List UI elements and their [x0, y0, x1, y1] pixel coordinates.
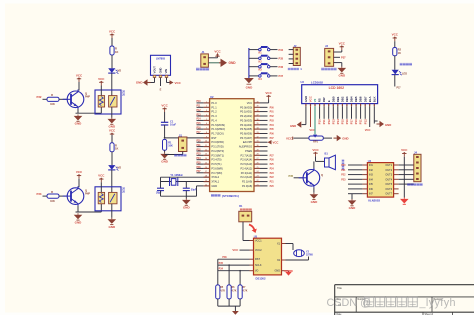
- svg-text:P1.1: P1.1: [211, 105, 217, 109]
- svg-text:P34: P34: [197, 157, 202, 160]
- LED VD (relay P33): [108, 165, 121, 170]
- svg-text:P0.0(AD0): P0.0(AD0): [240, 105, 252, 109]
- svg-text:RP1: RP1: [313, 141, 318, 144]
- wire P33 to base resistor: [43, 195, 48, 197]
- svg-text:U3: U3: [301, 80, 305, 84]
- connector J2 (keys): [293, 44, 300, 66]
- svg-text:VCC: VCC: [175, 81, 182, 85]
- RTC U5 designator: [254, 234, 258, 238]
- svg-text:22: 22: [257, 180, 259, 182]
- svg-text:P3.7(RD): P3.7(RD): [211, 171, 222, 175]
- wire LED to relay contact: [111, 73, 113, 96]
- svg-text:RST: RST: [255, 258, 260, 261]
- wire XTAL2 rail: [161, 176, 210, 178]
- wires J2 to keys: [289, 50, 294, 64]
- power flag VCC (relay coil): [98, 174, 105, 193]
- svg-text:DB3: DB3: [345, 96, 349, 102]
- ground (relay contact): [108, 118, 117, 129]
- relay coil: [98, 96, 104, 107]
- svg-text:P1.6(MISO): P1.6(MISO): [211, 127, 225, 131]
- svg-text:P34: P34: [219, 268, 224, 271]
- svg-text:P1.3: P1.3: [211, 114, 217, 118]
- net label P33: [37, 192, 42, 196]
- wire speaker to Q collector: [313, 161, 315, 168]
- svg-text:VCC: VCC: [286, 136, 293, 140]
- wire SCLK net: [218, 262, 250, 285]
- wire P35 to Q base: [294, 177, 304, 179]
- resistor R7 4.7K: [238, 285, 248, 299]
- svg-text:P0.3(AD3): P0.3(AD3): [240, 118, 252, 122]
- svg-text:P04: P04: [270, 124, 275, 127]
- svg-text:10: 10: [205, 141, 207, 143]
- svg-text:P22: P22: [270, 177, 275, 179]
- svg-text:LED: LED: [402, 73, 407, 76]
- power flag VCC (Q emitter): [76, 170, 83, 187]
- wire VCC to pot: [294, 137, 309, 139]
- LCD data wires with net labels: [318, 106, 368, 124]
- svg-text:36: 36: [257, 119, 259, 121]
- resistor R 1K (relay P33): [110, 135, 119, 152]
- wire LCD pin15 VCC: [365, 106, 371, 132]
- svg-text:GND: GND: [229, 61, 237, 65]
- wire LCD pin16 to GND: [374, 106, 377, 123]
- svg-text:DB6: DB6: [359, 96, 363, 102]
- wire resistor to LED: [111, 152, 113, 165]
- svg-text:P31: P31: [197, 145, 202, 147]
- svg-text:P00: P00: [270, 107, 275, 109]
- power flag VCC (MCU pin40): [260, 91, 273, 103]
- ground (LCD pin16, arrow right): [377, 121, 392, 127]
- svg-text:P2.1(A9): P2.1(A9): [242, 180, 252, 184]
- wire VCC stub: [111, 38, 113, 46]
- wire LCD pin2 VCC: [309, 106, 315, 132]
- ground (stepper, red): [400, 165, 409, 204]
- resistor R5 4.7K: [216, 285, 226, 299]
- svg-text:P32: P32: [197, 149, 202, 151]
- svg-text:P11: P11: [359, 119, 363, 124]
- switch K3: [249, 63, 284, 72]
- label power port: [196, 68, 209, 71]
- svg-text:DB4: DB4: [350, 96, 354, 102]
- resistor R 1K (relay P32): [110, 38, 119, 55]
- svg-text:EA/VPP: EA/VPP: [243, 140, 253, 144]
- svg-text:P2.3(A11): P2.3(A11): [241, 171, 253, 175]
- power flag VCC (pot): [286, 136, 293, 140]
- capacitor C1 10uF: [161, 112, 177, 138]
- wire MCU GND pin: [186, 186, 203, 196]
- svg-text:11: 11: [205, 145, 207, 147]
- connector J4 (stepper): [414, 151, 421, 182]
- svg-text:XTAL1: XTAL1: [211, 180, 219, 184]
- wire resistor to LED: [111, 55, 113, 68]
- svg-text:P26: P26: [270, 160, 275, 162]
- wire VCC stub: [111, 137, 113, 143]
- power flag VCC (reset): [161, 103, 168, 112]
- svg-text:LM7805: LM7805: [156, 58, 166, 61]
- svg-text:12: 12: [205, 149, 207, 151]
- svg-text:P05: P05: [270, 129, 275, 131]
- svg-text:JD: JD: [122, 94, 125, 97]
- svg-text:P35: P35: [197, 162, 202, 164]
- svg-text:P0.7(AD7): P0.7(AD7): [240, 136, 252, 140]
- wire VCC2: [232, 248, 249, 252]
- resistor R6 4.7K: [227, 285, 237, 299]
- svg-text:P2.0(A8): P2.0(A8): [242, 184, 252, 188]
- svg-text:BLA: BLA: [368, 95, 372, 102]
- svg-text:GND: GND: [342, 137, 348, 141]
- svg-text:38: 38: [257, 110, 259, 112]
- LCD module U3 box: [301, 80, 378, 103]
- svg-text:VD: VD: [118, 69, 122, 73]
- svg-text:P2.2(A10): P2.2(A10): [241, 175, 253, 179]
- svg-text:P3.2(INT0): P3.2(INT0): [211, 149, 224, 153]
- ULN2003 label: [368, 198, 380, 202]
- svg-text:GND: GND: [311, 200, 319, 204]
- svg-text:VCC: VCC: [265, 91, 272, 95]
- svg-text:P30: P30: [197, 141, 202, 143]
- svg-text:P35: P35: [219, 262, 224, 265]
- wire relay contact to GND: [111, 107, 113, 118]
- svg-text:P16: P16: [345, 119, 349, 124]
- svg-text:OUT1: OUT1: [385, 164, 392, 167]
- svg-text:R: R: [51, 190, 53, 194]
- svg-text:XTAL2: XTAL2: [211, 175, 219, 179]
- svg-text:P34: P34: [279, 48, 284, 52]
- svg-text:P15: P15: [341, 119, 345, 124]
- svg-text:VCC: VCC: [109, 29, 116, 33]
- svg-text:P10: P10: [318, 119, 322, 124]
- wire J3 pin3 to GND: [334, 63, 342, 67]
- svg-text:P12: P12: [197, 110, 202, 112]
- svg-text:10K: 10K: [168, 145, 173, 148]
- power flag VCC (U1 out): [167, 80, 182, 85]
- svg-text:23: 23: [257, 176, 259, 178]
- svg-text:P2.7(A15): P2.7(A15): [241, 153, 253, 157]
- switch K1: [249, 46, 284, 55]
- wire reset node to RST pin: [164, 137, 210, 139]
- svg-text:1: 1: [206, 101, 207, 103]
- U1 middle pin mark: [160, 88, 162, 92]
- svg-text:P01: P01: [270, 112, 275, 114]
- svg-text:V0: V0: [313, 98, 317, 102]
- svg-text:VOUT: VOUT: [153, 66, 157, 74]
- svg-text:VCC: VCC: [312, 148, 319, 152]
- svg-text:P24: P24: [270, 167, 275, 170]
- wire P32 to base resistor: [43, 98, 48, 100]
- svg-text:P37: P37: [341, 55, 346, 59]
- svg-text:PNP: PNP: [85, 96, 90, 99]
- regulator U1 box: [151, 55, 171, 75]
- svg-text:40: 40: [257, 101, 259, 103]
- svg-text:RW: RW: [322, 97, 326, 102]
- svg-text:GND: GND: [136, 81, 144, 85]
- svg-text:P37: P37: [197, 171, 202, 173]
- ULN2003 pin texts: [369, 164, 393, 196]
- wire resistors common: [218, 299, 240, 306]
- ULN2003 body: [367, 163, 393, 198]
- capacitor C2 30pF: [156, 177, 164, 196]
- power flag VCC (Q emitter): [76, 73, 83, 90]
- svg-text:31: 31: [257, 141, 259, 143]
- svg-text:1K: 1K: [115, 50, 118, 54]
- wire base resistor to Q: [59, 98, 67, 100]
- svg-text:JD: JD: [122, 190, 125, 193]
- svg-text:IN2: IN2: [369, 169, 374, 172]
- MCU U2 designator: [210, 95, 214, 99]
- svg-text:GND: GND: [161, 160, 169, 164]
- svg-text:8: 8: [206, 132, 207, 134]
- svg-text:SCLK: SCLK: [255, 264, 262, 267]
- svg-text:35: 35: [257, 123, 259, 125]
- power flag VCC (speaker): [312, 148, 319, 157]
- MCU P2 wires and net labels: [260, 155, 274, 188]
- svg-text:P1.2: P1.2: [211, 110, 217, 114]
- MCU pin name texts: [211, 101, 252, 188]
- wire RST net: [218, 256, 250, 285]
- svg-text:P32: P32: [37, 95, 42, 99]
- svg-text:6: 6: [206, 123, 207, 125]
- svg-text:P12: P12: [327, 119, 331, 124]
- svg-text:P02: P02: [270, 116, 275, 118]
- svg-text:PSEN: PSEN: [245, 149, 252, 153]
- ULN2003 U4 designator: [368, 159, 372, 163]
- svg-text:P25: P25: [270, 164, 275, 166]
- svg-text:VCC: VCC: [76, 73, 83, 77]
- wire caps common: [161, 196, 187, 198]
- label keys port: [288, 67, 302, 71]
- svg-text:P13: P13: [197, 114, 202, 116]
- svg-text:R: R: [51, 93, 53, 97]
- svg-text:VCC: VCC: [214, 50, 221, 54]
- svg-text:P20: P20: [341, 164, 346, 167]
- wire Q collector down: [76, 107, 102, 113]
- svg-text:4.7K: 4.7K: [243, 289, 248, 292]
- svg-text:P22: P22: [341, 174, 346, 177]
- svg-text:DB2: DB2: [341, 96, 345, 102]
- svg-text:P3.3(INT1): P3.3(INT1): [211, 153, 224, 157]
- wire LED down: [395, 75, 402, 90]
- ground (below Q): [74, 115, 83, 126]
- svg-text:VCC2: VCC2: [255, 249, 262, 252]
- MCU body: [210, 99, 254, 192]
- svg-text:P3.6(WR): P3.6(WR): [211, 166, 223, 170]
- net label P32: [37, 95, 42, 99]
- svg-text:VCC: VCC: [339, 41, 346, 45]
- label temp sensor port: [321, 68, 336, 71]
- svg-text:RST: RST: [211, 136, 217, 140]
- svg-text:E: E: [327, 100, 331, 102]
- svg-text:P2.6(A14): P2.6(A14): [241, 158, 253, 162]
- LED power indicator: [392, 70, 408, 76]
- power flag VCC (relay P32 pull): [109, 29, 116, 38]
- svg-text:OUT5: OUT5: [385, 183, 392, 186]
- svg-text:VCC: VCC: [98, 174, 105, 178]
- svg-text:28: 28: [257, 154, 259, 156]
- svg-text:18: 18: [205, 176, 207, 178]
- svg-text:GND: GND: [108, 225, 116, 229]
- svg-text:P23: P23: [270, 173, 275, 175]
- svg-text:7: 7: [206, 128, 207, 130]
- svg-text:P0.4(AD4): P0.4(AD4): [240, 123, 252, 127]
- svg-text:P1.5(MOSI): P1.5(MOSI): [211, 123, 225, 127]
- potentiometer RP1: [309, 135, 323, 144]
- svg-text:P33: P33: [37, 192, 42, 196]
- DS1302 label: [255, 276, 266, 280]
- svg-text:GND: GND: [246, 85, 254, 89]
- svg-text:P17: P17: [197, 132, 202, 134]
- wire battery to VCC1: [243, 222, 254, 241]
- LED VD (relay P32): [108, 68, 121, 73]
- ground (reset R): [160, 150, 169, 163]
- capacitor C3 30pF: [183, 182, 197, 197]
- svg-text:P36: P36: [279, 65, 284, 69]
- wire LCD pin1 to GND: [302, 106, 306, 124]
- svg-text:P1.0: P1.0: [211, 101, 217, 105]
- svg-text:DB1: DB1: [336, 96, 340, 102]
- svg-text:GND: GND: [385, 123, 391, 127]
- svg-text:DS1302: DS1302: [255, 276, 266, 280]
- transistor Q NPN (buzzer): [299, 168, 323, 188]
- connector J1 (power): [201, 50, 209, 67]
- MCU EA to VCC: [260, 140, 278, 144]
- switch K4: [249, 72, 284, 81]
- svg-text:VCC: VCC: [232, 248, 238, 252]
- svg-text:4.7K: 4.7K: [232, 289, 237, 292]
- svg-text:P21: P21: [270, 182, 275, 184]
- wire J1 pin1 to VCC: [208, 50, 221, 58]
- relay pin labels: [122, 187, 125, 193]
- svg-text:VCC: VCC: [161, 103, 168, 107]
- svg-text:P3.4(T0): P3.4(T0): [211, 158, 221, 162]
- wire X1 to crystal: [286, 244, 294, 251]
- svg-text:Title: Title: [337, 286, 342, 290]
- svg-text:14: 14: [205, 158, 207, 160]
- svg-text:P33: P33: [197, 154, 202, 156]
- svg-text:VCC: VCC: [309, 95, 313, 102]
- svg-text:P1.4: P1.4: [211, 118, 217, 122]
- svg-text:P14: P14: [197, 118, 202, 121]
- svg-text:24: 24: [257, 171, 259, 173]
- ground (below Q): [74, 213, 83, 224]
- red arrow (battery): [249, 225, 257, 234]
- resistor R 10K (base): [47, 93, 59, 106]
- wire LCD pin3 to pot wiper: [314, 106, 316, 134]
- svg-text:GND: GND: [158, 68, 162, 74]
- svg-text:P35: P35: [288, 174, 293, 178]
- U1 pins: [153, 75, 168, 86]
- LCD pin stubs: [306, 104, 374, 107]
- ground (ULN2003): [348, 194, 357, 210]
- svg-text:_lyyfyh: _lyyfyh: [419, 297, 456, 309]
- svg-text:DB5: DB5: [354, 96, 358, 102]
- svg-text:1K: 1K: [115, 147, 118, 151]
- ground (button bus): [244, 76, 254, 89]
- svg-text:IN3: IN3: [369, 174, 374, 177]
- svg-text:GND: GND: [75, 122, 83, 126]
- power flag VCC (relay coil): [98, 77, 105, 96]
- svg-text:VCC: VCC: [109, 129, 116, 133]
- DS1302 pin texts: [255, 240, 281, 273]
- svg-text:VCC: VCC: [365, 128, 371, 132]
- svg-text:26: 26: [257, 163, 259, 165]
- svg-text:P27: P27: [270, 155, 275, 157]
- label stepper port: [407, 183, 422, 186]
- svg-text:P10: P10: [354, 119, 358, 124]
- MCU label: [211, 194, 239, 198]
- svg-text:VCC: VCC: [98, 77, 105, 81]
- svg-text:25: 25: [257, 167, 259, 169]
- svg-text:33: 33: [257, 132, 259, 134]
- svg-text:16: 16: [205, 167, 207, 169]
- svg-text:2: 2: [206, 106, 207, 108]
- wire pot to GND: [323, 137, 332, 139]
- power flag VCC (relay P33 pull): [109, 129, 116, 138]
- label Y1 12MHz: [170, 173, 183, 177]
- svg-text:P17: P17: [397, 88, 402, 90]
- svg-text:P15: P15: [197, 123, 202, 125]
- MCU P0 wires and net labels: [260, 107, 274, 151]
- svg-text:P12: P12: [363, 119, 367, 124]
- svg-text:P0.2(AD2): P0.2(AD2): [240, 114, 252, 118]
- svg-text:VCC: VCC: [273, 140, 279, 144]
- wire X2 to crystal: [286, 257, 309, 261]
- svg-text:5: 5: [206, 119, 207, 121]
- relay K box: [95, 90, 121, 114]
- svg-text:P20: P20: [270, 186, 275, 188]
- svg-text:IN1: IN1: [369, 164, 374, 167]
- wire Q emitter to GND: [313, 188, 315, 193]
- MCU pin stubs and numbers: [204, 101, 260, 186]
- svg-text:32768: 32768: [306, 254, 313, 257]
- wire J3 pin1 to VCC: [334, 41, 346, 52]
- svg-text:30pF: 30pF: [156, 192, 162, 195]
- svg-text:OUT7: OUT7: [385, 193, 392, 196]
- watermark: [327, 297, 456, 309]
- svg-text:34: 34: [257, 128, 259, 130]
- ground (U1 input, arrow left): [136, 79, 155, 85]
- relay pin labels: [122, 91, 125, 97]
- svg-text:OUT3: OUT3: [385, 174, 392, 177]
- svg-text:DB0: DB0: [331, 96, 335, 102]
- connector J3 (temp sensor): [325, 44, 334, 66]
- svg-text:27: 27: [257, 158, 259, 160]
- svg-text:4.7K: 4.7K: [220, 289, 225, 292]
- svg-text:3: 3: [206, 110, 207, 112]
- svg-text:OUT2: OUT2: [385, 169, 392, 172]
- svg-text:OUT4: OUT4: [385, 178, 392, 181]
- svg-text:DB7: DB7: [363, 96, 367, 102]
- svg-text:P36: P36: [197, 167, 202, 169]
- svg-text:P36: P36: [222, 256, 227, 259]
- push button S1 (reset): [165, 135, 187, 155]
- wire button bus: [248, 48, 250, 76]
- svg-text:P35: P35: [279, 57, 284, 61]
- svg-text:LCD 1602: LCD 1602: [329, 86, 345, 90]
- svg-text:P03: P03: [270, 120, 275, 122]
- title block frame: [335, 285, 474, 315]
- relay K box: [95, 187, 121, 211]
- svg-text:P21: P21: [341, 169, 346, 172]
- ground (RTC, red): [284, 271, 292, 276]
- svg-text:20: 20: [205, 184, 207, 186]
- power flag VCC (stepper): [401, 148, 408, 165]
- svg-text:GND: GND: [183, 206, 191, 210]
- svg-text:P23: P23: [341, 178, 346, 181]
- svg-text:P17: P17: [350, 119, 354, 124]
- svg-text:GND: GND: [338, 74, 346, 78]
- svg-text:P3.0(RXD): P3.0(RXD): [211, 140, 224, 144]
- svg-text:RS: RS: [318, 98, 322, 102]
